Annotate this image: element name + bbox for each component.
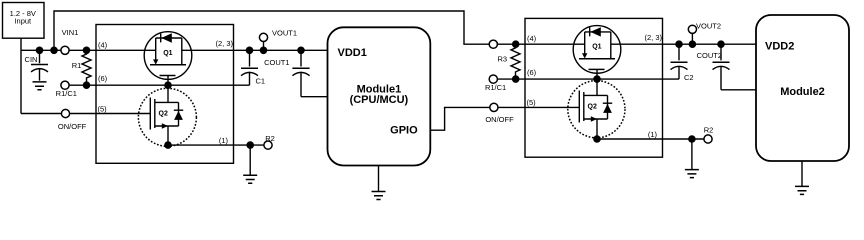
- svg-text:R1/C1: R1/C1: [485, 83, 506, 92]
- wire ON/OFF (5) to Q2 gate: [21, 113, 151, 115]
- svg-text:VOUT1: VOUT1: [272, 29, 297, 38]
- svg-text:C1: C1: [256, 77, 266, 86]
- junction C1: [246, 47, 254, 55]
- transistor Q1: [144, 32, 192, 80]
- terminal VOUT1: [259, 29, 297, 51]
- wire Q1 gate to node (6) and Q2 drain: [167, 76, 169, 103]
- junction VOUT1: [260, 47, 268, 55]
- ground CIN: [33, 82, 47, 90]
- svg-text:CIN: CIN: [25, 55, 38, 64]
- svg-text:ON/OFF: ON/OFF: [485, 115, 514, 124]
- junction ground node (1): [246, 141, 254, 149]
- wire (1) GND line stage2: [597, 138, 708, 140]
- svg-text:(6): (6): [527, 68, 537, 77]
- terminal ON/OFF stage2: [485, 103, 514, 124]
- svg-text:VIN1: VIN1: [62, 28, 79, 37]
- capacitor COUT2: [697, 44, 730, 90]
- terminal VIN stage2: [489, 40, 497, 48]
- junction CIN: [36, 47, 44, 55]
- capacitor C2: [671, 44, 694, 82]
- svg-text:R3: R3: [498, 55, 508, 64]
- svg-text:Q2: Q2: [588, 104, 597, 111]
- svg-text:R1/C1: R1/C1: [56, 89, 77, 98]
- wire Q1 gate to node stage2: [596, 69, 598, 95]
- junction R1 top: [83, 47, 91, 55]
- load switch IC1 box: [96, 25, 234, 164]
- resistor R1: [72, 50, 91, 85]
- junction R1 bottom: [83, 81, 91, 89]
- load switch IC2 box: [525, 18, 663, 157]
- terminal R2 (stage1): [264, 134, 275, 149]
- svg-text:R2: R2: [265, 134, 275, 143]
- svg-text:(1): (1): [219, 136, 229, 145]
- svg-text:VDD1: VDD1: [338, 47, 367, 59]
- svg-text:R2: R2: [704, 125, 714, 134]
- wire COUT2 to Module2: [721, 89, 756, 91]
- wire (6) node to C1: [65, 84, 250, 86]
- svg-text:ON/OFF: ON/OFF: [58, 122, 87, 131]
- svg-text:(5): (5): [527, 98, 537, 107]
- svg-text:(5): (5): [98, 104, 108, 113]
- wire VOUT2 rail: [611, 43, 756, 45]
- junction gate node stage2: [593, 75, 601, 83]
- junction R3 bottom: [512, 75, 520, 83]
- svg-text:Q2: Q2: [159, 111, 168, 118]
- wire VIN rail: [21, 49, 156, 51]
- terminal VOUT2: [688, 22, 721, 45]
- wire (1) GND line: [168, 144, 268, 146]
- wire VOUT1 rail: [182, 49, 328, 51]
- terminal R2 (stage2): [704, 125, 714, 143]
- transistor Q1 stage2: [573, 26, 621, 74]
- input source box 1.2-8V: [3, 3, 45, 39]
- junction gate node (6): [164, 81, 172, 89]
- svg-text:(6): (6): [98, 74, 108, 83]
- Module1 box: [328, 27, 431, 165]
- junction ground node (1) stage2: [688, 135, 696, 143]
- wire input to VIN rail and ON/OFF: [20, 38, 22, 113]
- terminal R1/C1: [56, 81, 77, 98]
- resistor R3: [498, 44, 520, 79]
- wire Q2 source lead: [167, 126, 169, 145]
- wire GPIO to ON/OFF stage2: [430, 107, 579, 130]
- junction COUT2: [717, 40, 725, 48]
- terminal ON/OFF: [58, 109, 87, 131]
- ground Module2: [795, 161, 809, 194]
- capacitor COUT1: [264, 50, 310, 96]
- capacitor CIN: [25, 50, 48, 80]
- terminal R1/C1 stage2: [485, 75, 506, 92]
- Module2 box: [756, 15, 849, 161]
- svg-text:Q1: Q1: [163, 50, 172, 57]
- wire top feed to stage 2: [54, 11, 585, 50]
- ground Module1: [372, 166, 386, 200]
- junction VOUT2: [689, 40, 697, 48]
- junction R3 top: [512, 40, 520, 48]
- svg-text:COUT2: COUT2: [697, 51, 722, 60]
- svg-text:(4): (4): [98, 40, 108, 49]
- svg-text:R1: R1: [72, 61, 82, 70]
- ground stage2 (1): [685, 139, 699, 178]
- junction C2: [675, 40, 683, 48]
- svg-text:COUT1: COUT1: [264, 58, 289, 67]
- wire Q2 source lead stage2: [596, 119, 598, 139]
- terminal VIN1: [61, 28, 78, 54]
- junction top feed: [50, 47, 58, 55]
- transistor Q2: [138, 88, 196, 146]
- svg-text:(4): (4): [527, 34, 537, 43]
- svg-text:Q1: Q1: [592, 44, 601, 51]
- transistor Q2 stage2: [568, 81, 625, 138]
- svg-text:C2: C2: [684, 73, 694, 82]
- wire (6) stage2 to C2: [493, 78, 679, 80]
- capacitor C1: [241, 50, 265, 85]
- ground stage1 (1): [243, 145, 257, 183]
- junction Q2 source: [164, 141, 172, 149]
- svg-text:Input: Input: [14, 17, 32, 26]
- svg-text:Module2: Module2: [780, 86, 825, 98]
- svg-text:(2, 3): (2, 3): [215, 39, 233, 48]
- junction Q2 source stage2: [593, 135, 601, 143]
- svg-text:(CPU/MCU): (CPU/MCU): [350, 94, 409, 106]
- junction COUT1: [297, 47, 305, 55]
- svg-text:(2, 3): (2, 3): [644, 33, 662, 42]
- svg-text:GPIO: GPIO: [390, 124, 418, 136]
- svg-text:VDD2: VDD2: [765, 41, 794, 53]
- svg-text:(1): (1): [648, 130, 658, 139]
- wire COUT1 to Module1: [301, 96, 328, 98]
- svg-text:VOUT2: VOUT2: [696, 22, 721, 31]
